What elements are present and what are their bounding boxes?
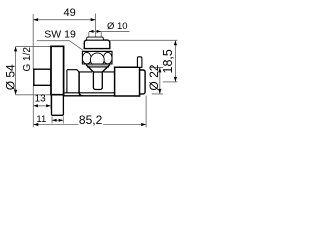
wire: outlet axis extension line [95,14,97,38]
arrow 85,2 right [141,123,146,126]
hex facet left ellipse [82,52,91,64]
stem [93,72,102,90]
Ø10 plate on cap [86,37,103,40]
body barrel [64,70,115,93]
G1/2 threaded inlet [34,69,51,85]
handle cylinder [115,67,140,96]
dimension 18,5 line [174,40,176,82]
handle end ring [140,70,146,94]
arrow Ø22 top [158,68,161,73]
arrow 13 left [34,104,39,107]
arrow 13 right [46,104,51,107]
cap over hex [84,40,110,49]
svg-text:SW 19: SW 19 [44,29,76,41]
wire: Ø10 extension lines [89,32,101,37]
hex facet middle circle [90,53,104,67]
wire: wall/thread-face extension line (left reference) [32,14,34,69]
dimension Ø54 line [15,46,17,94]
label SW 19 leader [37,41,83,51]
tab on handle top [137,57,142,68]
arrow 18,5 bottom [174,77,177,82]
arrow 85,2 left [34,123,39,126]
arrow 11 left [52,119,57,122]
skirt seat line [87,66,109,68]
svg-text:Ø 22: Ø 22 [147,64,161,90]
arrow 49 right [91,18,96,21]
dimension 85,2 extension right (pipe end face) [145,96,147,128]
body front bold edge [79,72,82,96]
dimension 11 line [52,119,63,121]
arrow Ø10 right [97,30,102,33]
svg-text:18,5: 18,5 [161,49,175,73]
dimension 18,5 extension top (continues cap top line) [110,39,178,41]
dimension Ø22 extensions [150,67,164,94]
body lower boss contour [63,95,114,97]
hex band top/bottom edges redrawn over circles [82,51,112,64]
dimension 49 line [33,19,95,21]
arrowheads [14,18,177,126]
svg-text:13: 13 [35,93,47,104]
svg-text:49: 49 [63,7,75,19]
downward outlet stub below rosette [52,95,64,116]
dimension 18,5 extension bottom (pipe axis) [163,81,178,83]
dimension 13 line [33,105,50,107]
dimension Ø10 line [89,30,130,32]
skirt sides [86,65,110,72]
dimension 85,2 line [33,124,146,126]
arrow Ø54 bottom [14,90,17,95]
svg-text:Ø 10: Ø 10 [107,21,128,32]
svg-text:Ø 54: Ø 54 [4,64,18,90]
arrow Ø54 top [14,47,17,52]
arrow Ø10 left [89,30,94,33]
arrow 49 left [33,18,38,21]
wall rosette Ø54 [51,46,64,94]
dimension Ø22 line [159,67,161,94]
dimension Ø54 extensions [16,46,51,94]
svg-text:85,2: 85,2 [79,113,103,127]
svg-text:11: 11 [36,114,46,125]
svg-text:G 1/2: G 1/2 [22,47,33,72]
hex nut SW19 band [82,51,112,64]
arrow Ø22 bottom [158,89,161,94]
hex facet right ellipse [103,52,112,64]
dimension 13 extension right (rosette face) [50,95,52,109]
arrow 11 right [59,119,64,122]
skirt below hex: gray strip [86,65,110,67]
arrow 18,5 top [174,41,177,46]
dimension 11 extensions [52,117,63,124]
